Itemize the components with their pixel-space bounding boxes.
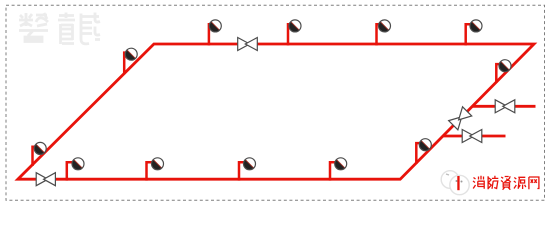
fire hydrant H1 (209, 20, 221, 46)
fire hydrant H11 (416, 139, 431, 164)
watermark red bar (457, 176, 459, 190)
fire hydrant H9 (33, 142, 47, 166)
fire hydrant H6 (147, 158, 164, 181)
wire: fire main ring loop (top header, right riser, bottom header, left riser) (18, 44, 534, 179)
fire hydrant H5 (67, 158, 84, 181)
fire hydrant H3 (377, 20, 391, 46)
valve V5 lower branch (462, 130, 482, 143)
watermark text pan-long top-left (19, 13, 48, 42)
fire hydrant H2 (288, 20, 301, 46)
valve V4 upper branch (495, 100, 515, 113)
valve V2 bottom header (36, 173, 55, 186)
wire: lower right branch (443, 135, 506, 138)
fire hydrant H12 (496, 60, 511, 83)
valve V3 right riser (449, 107, 472, 130)
valve V1 top header (238, 38, 258, 51)
wire: upper right branch (472, 105, 536, 108)
fire hydrant H8 (330, 158, 347, 181)
logo watermark circles bottom-right (441, 171, 469, 195)
fire hydrant H10 (124, 48, 137, 74)
fire hydrant H4 (466, 20, 482, 46)
watermark text xiao-fang-zi-yuan-wang (473, 176, 539, 190)
fire hydrant H7 (239, 158, 256, 181)
